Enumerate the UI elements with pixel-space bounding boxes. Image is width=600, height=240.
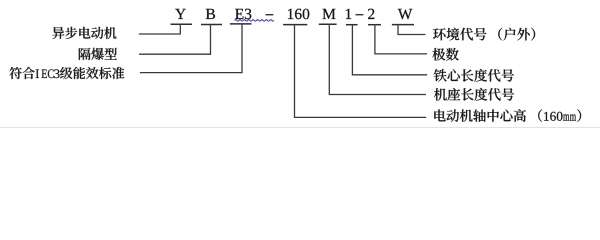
wire from W down-right to 环境代号: [398, 25, 425, 35]
label 机座长度代号 (frame length code): [434, 88, 514, 101]
wire from 160 down-right to 电动机轴中心高: [295, 25, 426, 118]
label 异步电动机 (asynchronous motor): [52, 27, 116, 39]
code number 160: [288, 9, 309, 20]
underline under 1: [346, 24, 358, 26]
code dash between 1 and 2: [356, 13, 364, 16]
code letter B: [206, 9, 215, 19]
underline under 2: [368, 24, 381, 26]
blue wavy spell-check underline under "E3 –": [235, 20, 275, 21]
underline under E3: [230, 23, 252, 25]
label 极数 (number of poles): [432, 48, 458, 61]
underline under B: [201, 24, 222, 26]
wire from M down-right to 机座长度代号: [329, 24, 425, 94]
underline under M: [319, 23, 337, 25]
code letter Y: [175, 9, 186, 19]
code letter M: [323, 9, 336, 19]
underline under W: [392, 24, 414, 26]
label 环境代号（户外） (environment code, outdoor): [433, 28, 535, 41]
code dash between E3 and 160: [266, 13, 274, 16]
wire from B down-left to 隔爆型: [140, 25, 211, 55]
code letter W: [398, 9, 413, 19]
underline under Y: [171, 23, 193, 25]
label 铁心长度代号 (core length code): [434, 69, 514, 82]
label 电动机轴中心高（160mm） (shaft center height): [434, 109, 581, 122]
label 隔爆型 (flameproof type): [79, 48, 117, 60]
wire from E3 down-left to 符合IEC3级能效标准: [141, 24, 243, 73]
wire from 1 down-right to 铁心长度代号: [352, 25, 426, 75]
code digit 2: [368, 9, 374, 19]
wire from 2 down-right to 极数: [375, 25, 427, 54]
code digit 1: [346, 9, 351, 19]
underline under 160: [283, 24, 307, 26]
wire from Y down-left to 异步电动机: [140, 24, 181, 34]
label 符合IEC3级能效标准 (meets IE3 efficiency standard): [10, 67, 125, 79]
code token E3: [235, 9, 251, 20]
